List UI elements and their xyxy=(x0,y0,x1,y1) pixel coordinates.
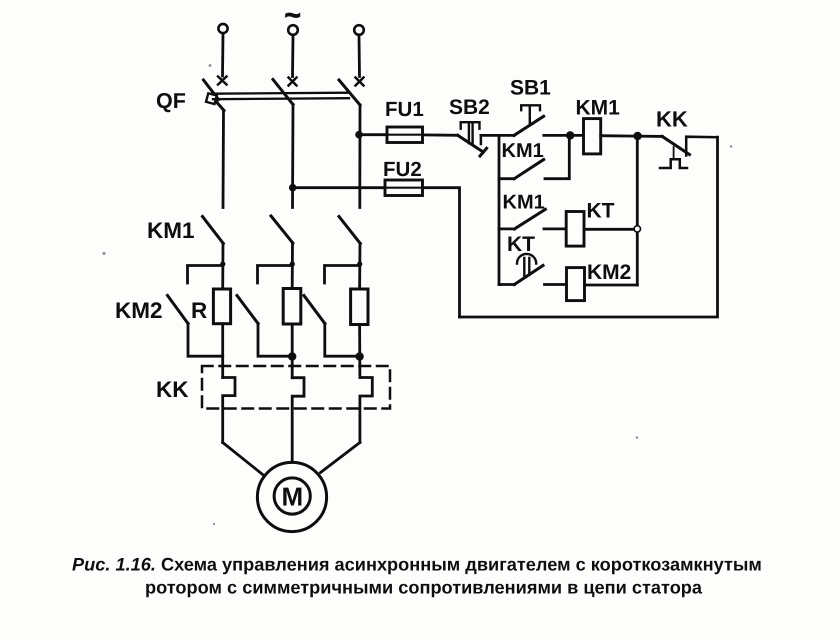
wire lead L1 xyxy=(221,34,224,77)
timer coil KT label xyxy=(587,200,615,223)
node left of KM1 coil xyxy=(566,131,574,139)
wire FU1 to SB2 xyxy=(423,133,458,136)
node bypass tap pole 1 xyxy=(220,261,225,266)
KM2 contact pole 1 xyxy=(168,296,189,324)
pushbutton SB1 label xyxy=(510,77,551,100)
caption line 2 xyxy=(145,578,703,598)
KM2 contact pole 2 xyxy=(237,296,258,324)
caption line 1 xyxy=(72,555,762,575)
wire KM2 coil to vertical xyxy=(585,284,638,287)
KM2 bypass branch pole 1 xyxy=(188,266,223,284)
AC tilde mark xyxy=(285,0,301,31)
terminal L3 xyxy=(354,25,364,35)
KM2 branch bottom pole 3 xyxy=(325,324,360,357)
fuse FU2 label xyxy=(383,158,422,181)
KK thermal actuator xyxy=(660,147,687,168)
svg-text:KT: KT xyxy=(507,233,535,256)
svg-text:M: M xyxy=(282,482,304,512)
svg-text:KM1: KM1 xyxy=(503,192,545,214)
resistor R pole 1 xyxy=(213,289,230,324)
QF linkage bar (double line) xyxy=(212,93,349,100)
wire pole 1 to motor xyxy=(223,443,263,475)
contactor coil KM2 label xyxy=(587,261,631,284)
scan specks xyxy=(103,64,733,525)
motor M outer circle xyxy=(257,462,326,531)
wire pole2 to FU2 xyxy=(293,186,385,189)
SB2 break contact blade xyxy=(458,135,487,156)
motor M letter xyxy=(282,482,304,512)
KK break contact blade xyxy=(662,136,689,154)
pushbutton SB2 label xyxy=(449,96,490,119)
KM1 aux timer-branch blade xyxy=(515,209,546,229)
KT timed contact leads xyxy=(499,283,567,286)
wire KM1 coil to node xyxy=(601,134,663,137)
vertical wire node to coil returns xyxy=(636,136,639,285)
svg-text:SB1: SB1 xyxy=(510,77,551,100)
contactor KM2 label xyxy=(115,298,163,323)
wire lead L2 xyxy=(291,36,294,77)
KK heater element pole 1 xyxy=(223,378,235,443)
svg-text:Рис. 1.16. Схема управления ас: Рис. 1.16. Схема управления асинхронным … xyxy=(72,555,762,575)
contactor KM1 main label xyxy=(147,218,195,243)
fuse FU1 xyxy=(387,127,423,143)
timed contact KT label xyxy=(507,233,535,256)
svg-text:QF: QF xyxy=(156,89,186,113)
junction KT return xyxy=(634,226,640,232)
wire pole3 contact to resistor xyxy=(358,244,361,290)
KM2 bypass branch pole 3 xyxy=(325,266,360,284)
SB2 right stub xyxy=(480,135,483,144)
circuit breaker QF label xyxy=(156,89,186,113)
thermal relay KK dashed box xyxy=(202,366,390,409)
wire pole2 contact to resistor xyxy=(291,243,294,289)
thermal contact KK label xyxy=(656,107,688,132)
KT time-delay actuator xyxy=(517,254,536,278)
KM1 aux timer-branch label xyxy=(503,192,545,214)
thermal relay KK label xyxy=(156,377,189,402)
KM1 main contact pole 2 xyxy=(271,216,293,243)
wire node to KM1 coil xyxy=(570,134,583,137)
svg-text:FU2: FU2 xyxy=(383,158,422,181)
svg-text:KM2: KM2 xyxy=(115,298,163,323)
QF blade pole 2 xyxy=(273,80,293,105)
KK heater element pole 2 xyxy=(292,378,304,463)
node bypass tap pole 2 xyxy=(290,261,295,266)
contactor coil KM1 xyxy=(584,119,601,154)
KM2 bypass branch pole 2 xyxy=(258,266,293,284)
node right of KM1 coil xyxy=(633,132,641,140)
KT timed contact blade xyxy=(514,266,543,285)
wire KT coil to vertical xyxy=(584,228,637,231)
resistor R pole 2 xyxy=(283,289,301,325)
wire pole2 resistor to heater xyxy=(291,324,294,378)
wire pole 3 to motor xyxy=(321,443,360,473)
KK contact right terminal xyxy=(686,137,717,156)
KM1 aux timer-branch contact leads xyxy=(499,227,566,230)
svg-text:FU1: FU1 xyxy=(385,98,424,121)
breaker cross pole 2 xyxy=(289,78,297,86)
wire pole3 resistor to heater xyxy=(358,325,361,378)
wire pole1 contact to resistor xyxy=(221,244,224,290)
svg-text:KM1: KM1 xyxy=(576,97,621,120)
svg-text:KK: KK xyxy=(656,107,688,132)
svg-text:KM1: KM1 xyxy=(147,218,195,243)
node pole 3 to FU1 xyxy=(355,131,363,139)
SB1 make contact xyxy=(499,116,570,135)
SB2 actuator xyxy=(461,122,480,143)
KM1 aux self-hold label xyxy=(502,140,544,162)
breaker cross pole 1 xyxy=(218,77,227,85)
svg-text:KK: KK xyxy=(156,377,189,402)
wire SB2 to bracket xyxy=(481,134,499,137)
fuse FU2 xyxy=(385,180,423,196)
KM2 branch bottom pole 2 xyxy=(258,324,292,357)
KM1 aux self-hold blade xyxy=(514,160,544,179)
KK heater element pole 3 xyxy=(360,378,372,443)
control branch bracket xyxy=(498,135,501,284)
QF blade pole 3 xyxy=(339,80,360,105)
motor M inner circle xyxy=(274,478,310,514)
contactor coil KM2 xyxy=(567,268,585,301)
wire lead L3 xyxy=(358,36,361,77)
KM2 branch bottom pole 1 xyxy=(188,324,223,357)
wire FU2 to left riser xyxy=(423,188,460,317)
resistor R label xyxy=(191,298,207,323)
KM1 main contact pole 3 xyxy=(339,217,360,244)
QF pivot square xyxy=(206,93,217,104)
wire pole 2 QF to KM1 xyxy=(291,105,294,208)
node branch rejoin pole 3 xyxy=(355,352,363,360)
node bypass tap pole 3 xyxy=(357,261,362,266)
terminal L1 xyxy=(218,24,227,33)
fuse FU1 label xyxy=(385,98,424,121)
svg-text:ротором с симметричными сопрот: ротором с симметричными сопротивлениями … xyxy=(145,578,703,598)
wire pole 1 QF to KM1 xyxy=(222,111,225,208)
wire pole 3 QF to KM1 xyxy=(358,105,361,208)
svg-text:~: ~ xyxy=(285,0,301,31)
contactor coil KM1 label xyxy=(576,97,621,120)
QF blade pole 1 xyxy=(204,80,219,100)
KM2 contact pole 3 xyxy=(304,296,325,324)
svg-text:SB2: SB2 xyxy=(449,96,490,119)
KM1 main contact pole 1 xyxy=(203,217,224,244)
node pole 2 to FU2 xyxy=(289,184,297,192)
node branch rejoin pole 2 xyxy=(288,352,296,360)
svg-text:KT: KT xyxy=(587,200,615,223)
QF pole 1 link to wire xyxy=(217,102,225,111)
svg-text:R: R xyxy=(191,298,207,323)
svg-text:KM2: KM2 xyxy=(587,261,631,284)
wire pole3 to FU1 xyxy=(359,133,387,136)
wire pole1 resistor to heater xyxy=(221,324,224,378)
SB1 actuator xyxy=(521,105,540,124)
terminal L2 xyxy=(288,25,298,35)
KM1 aux self-hold contact xyxy=(499,135,569,178)
resistor R pole 3 xyxy=(351,289,368,325)
timer coil KT xyxy=(566,212,584,247)
svg-text:KM1: KM1 xyxy=(502,140,544,162)
breaker cross pole 3 xyxy=(356,78,364,86)
bottom return rail xyxy=(460,137,718,317)
